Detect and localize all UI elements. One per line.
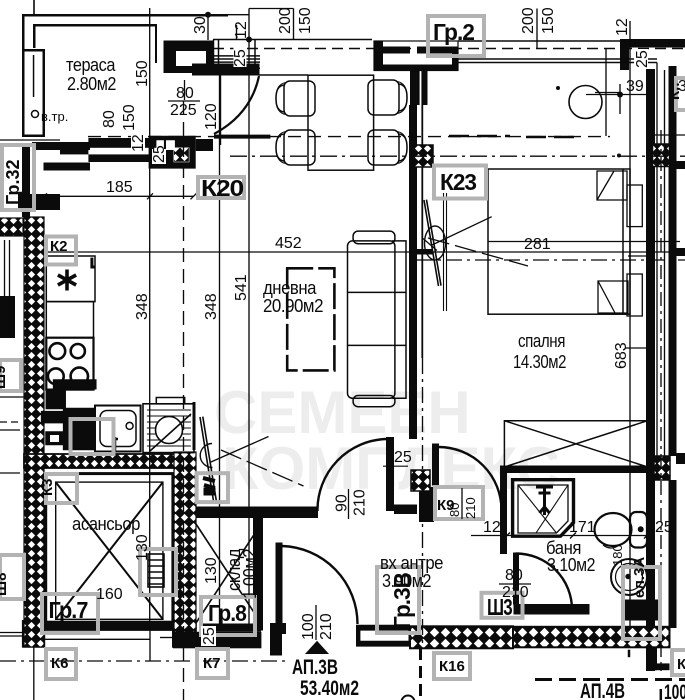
axis: tick under elevator bbox=[160, 637, 175, 639]
wall: right stub 1 bbox=[676, 161, 685, 169]
axis: vertical line x630 bbox=[629, 21, 631, 626]
node: dot right y155 bbox=[617, 154, 621, 158]
wall: pier block with hatch core bbox=[149, 136, 196, 169]
wall: kitchen north band upper bbox=[60, 146, 88, 155]
svg-text:К6: К6 bbox=[51, 655, 69, 672]
furniture: stove burner 2 bbox=[71, 344, 85, 358]
wall: storage right wall bbox=[253, 518, 263, 631]
axis: heavy dashed y679.5 bbox=[535, 678, 685, 681]
svg-text:452: 452 bbox=[275, 235, 302, 252]
door: kitchen unit panel bbox=[200, 417, 216, 501]
hatched wall: bottom band under antre bbox=[410, 626, 513, 648]
svg-text:25: 25 bbox=[151, 145, 168, 163]
furniture: sofa seat lines bbox=[348, 292, 393, 345]
bath: el panel black block bbox=[622, 600, 659, 620]
vtr circle bbox=[32, 111, 39, 118]
door: antre to shtrih leaf bbox=[433, 444, 439, 485]
hatched wall: pier right of bedroom window bbox=[653, 144, 670, 167]
wall: neighbour band left low bbox=[18, 194, 60, 210]
svg-text:14.30м2: 14.30м2 bbox=[513, 352, 566, 372]
elevator: shaft inner bbox=[56, 482, 163, 619]
svg-text:130: 130 bbox=[134, 534, 151, 561]
wall: storage bottom band bbox=[201, 624, 261, 632]
door: entrance leaf bbox=[276, 543, 282, 626]
svg-text:Гр.32: Гр.32 bbox=[3, 159, 23, 205]
wall: wall under antre with opening bbox=[356, 625, 410, 647]
wall: window pier left edge bbox=[374, 41, 383, 71]
svg-text:Ш9: Ш9 bbox=[0, 366, 9, 389]
svg-text:1.00м2: 1.00м2 bbox=[240, 549, 260, 599]
label box К2 bbox=[46, 237, 76, 265]
door: living to antre arc bbox=[317, 439, 386, 511]
wall: left hatch wall bottom cap bbox=[22, 620, 45, 648]
svg-text:348: 348 bbox=[203, 293, 220, 320]
svg-text:К16: К16 bbox=[439, 658, 465, 675]
svg-text:53.40м2: 53.40м2 bbox=[300, 677, 359, 700]
window: dashed axis through windows bbox=[213, 48, 685, 50]
svg-text:К1: К1 bbox=[677, 656, 685, 673]
svg-text:25: 25 bbox=[394, 449, 412, 466]
axis: line y135 right bbox=[652, 134, 685, 136]
wall: bedroom east wall bbox=[646, 69, 655, 671]
svg-text:150: 150 bbox=[134, 60, 151, 87]
svg-text:150: 150 bbox=[121, 104, 138, 131]
wall: bathroom south wall bbox=[514, 604, 590, 615]
furniture: cabinet white inner bbox=[50, 435, 59, 442]
axis: tick x629 bottom bbox=[628, 650, 631, 658]
wall: living-bedroom wall top double bbox=[410, 71, 428, 106]
svg-text:348: 348 bbox=[134, 293, 151, 320]
furniture: sofa armrest bottom bbox=[353, 396, 395, 407]
svg-text:12: 12 bbox=[130, 134, 147, 152]
wall: corridor south wall right stub bbox=[394, 505, 417, 515]
stairs: ladder icon bbox=[148, 554, 164, 587]
svg-text:200: 200 bbox=[520, 7, 537, 34]
axis: vertical line x236.5 top bbox=[236, 25, 238, 40]
svg-text:дневна: дневна bbox=[263, 278, 317, 298]
tick: 185 dim right bbox=[191, 193, 197, 199]
wall: balcony door frame bbox=[164, 41, 214, 74]
furniture: bedroom dresser line bbox=[444, 193, 447, 311]
svg-text:12: 12 bbox=[233, 21, 250, 39]
furniture: sink tap bbox=[112, 437, 118, 451]
axis: line y94.5 through circle bbox=[586, 94, 652, 96]
window: bedroom window lines bbox=[458, 40, 685, 63]
label box door K5 bbox=[197, 473, 228, 502]
door: kitchen unit hardware bbox=[203, 478, 215, 488]
svg-text:171: 171 bbox=[569, 519, 596, 536]
dim 25 rot storage white bbox=[201, 626, 218, 646]
svg-text:Гр.2: Гр.2 bbox=[433, 19, 474, 45]
svg-text:вх антре: вх антре bbox=[380, 553, 443, 573]
label box ел.3А bbox=[623, 567, 660, 639]
axis: vertical line x606 bbox=[605, 49, 607, 137]
label box Гр.8 bbox=[201, 597, 255, 635]
wall: bathroom north wall bbox=[500, 466, 656, 474]
label box К9 bbox=[435, 487, 483, 519]
elevator: shaft outer bbox=[46, 474, 173, 630]
axis: line y256 right stub bbox=[628, 255, 646, 257]
bath: shower outer bbox=[513, 480, 574, 537]
window: balcony window lines bbox=[213, 40, 372, 69]
svg-text:100: 100 bbox=[664, 681, 685, 700]
node: axis dot x249 bbox=[246, 37, 252, 43]
svg-text:39: 39 bbox=[678, 78, 685, 95]
furniture: pillow bottom bbox=[598, 281, 628, 313]
label box К20 bbox=[198, 177, 244, 198]
furniture: stove burner 3 bbox=[48, 368, 64, 384]
label box Гр.2 bbox=[428, 16, 484, 56]
hatched wall: bottom band under bath bbox=[513, 627, 670, 648]
bath: toilet tank dot bbox=[638, 527, 643, 532]
axis: horizontal line y241.5 bed dim bbox=[488, 241, 680, 243]
svg-text:25: 25 bbox=[655, 519, 673, 536]
dash segment left of circle bbox=[449, 135, 510, 138]
door: antre right arc bbox=[439, 447, 502, 510]
furniture: washer right edge bbox=[193, 402, 196, 450]
furniture: sofa backrest bbox=[392, 241, 406, 398]
wall: kitchen north band a bbox=[88, 138, 156, 148]
wall: terrace parapet block bbox=[22, 49, 45, 137]
furniture: sink outer bbox=[95, 406, 141, 452]
label box Ш8 bbox=[0, 555, 24, 599]
door: bedroom unit circle bbox=[425, 226, 446, 260]
dashes right of bed bbox=[526, 136, 581, 139]
axis: dash-dot vertical x422.5 bbox=[422, 358, 424, 648]
tick: 185 dim mid bbox=[147, 193, 153, 199]
node: dot y90 right of circle bbox=[556, 86, 560, 90]
door: kitchen unit vline B bbox=[221, 450, 304, 486]
label box stairs bbox=[140, 549, 176, 595]
furniture: chair top-right bbox=[368, 80, 407, 115]
furniture: nightstand bottom bbox=[627, 274, 642, 316]
wall: left edge neighbour block bbox=[0, 296, 15, 338]
wall: thin line bar to table bbox=[259, 74, 308, 76]
axis: thin vertical x664.5 bbox=[664, 70, 666, 456]
svg-text:12: 12 bbox=[614, 18, 631, 36]
wall: right stub 2 bbox=[676, 248, 685, 256]
axis: line below elevator bbox=[45, 638, 150, 640]
dim 100/210 rot entrance bbox=[300, 605, 335, 640]
axis: horizontal line y140 left bbox=[0, 139, 60, 141]
wall: NE corner vertical bbox=[620, 39, 629, 70]
furniture: sink basin bbox=[100, 411, 136, 447]
wall: entrance door jamb bottom left bbox=[270, 623, 286, 656]
svg-text:в.тр.: в.тр. bbox=[41, 109, 68, 124]
svg-text:К7: К7 bbox=[203, 655, 221, 672]
door: kitchen unit vline A bbox=[210, 437, 269, 463]
axis: vertical line x150 bottom bbox=[149, 625, 151, 661]
svg-text:тераса: тераса bbox=[66, 55, 116, 75]
elevator: X cross bbox=[56, 482, 163, 619]
svg-text:асансьор: асансьор bbox=[72, 514, 140, 534]
furniture: nightstand top bbox=[627, 185, 642, 227]
svg-text:Гр.8: Гр.8 bbox=[208, 600, 247, 626]
svg-text:120: 120 bbox=[203, 103, 220, 130]
door: bedroom unit vline B bbox=[428, 238, 528, 266]
svg-text:К3: К3 bbox=[39, 479, 56, 497]
door: bathroom leaf bbox=[514, 553, 519, 604]
axis: line y348 right stub bbox=[625, 347, 646, 349]
wall: window pier right edge bbox=[452, 47, 458, 72]
door: living to antre leaf bbox=[387, 438, 394, 511]
axis: short dash y422 left bbox=[0, 421, 20, 423]
svg-text:210: 210 bbox=[352, 489, 369, 516]
wall: terrace south lower bar bbox=[44, 163, 91, 171]
furniture: sofa body bbox=[348, 241, 395, 398]
furniture: washer tray bbox=[156, 398, 184, 404]
svg-text:К23: К23 bbox=[440, 169, 476, 195]
furniture: bed head line bbox=[622, 169, 624, 314]
column circle bedroom bbox=[569, 86, 602, 119]
furniture: chair bottom-left bbox=[276, 130, 315, 165]
hatched wall: pier near wardrobe right bbox=[654, 456, 670, 480]
wall: bar under balcony window bbox=[192, 64, 260, 76]
furniture: sink faucet dot bbox=[126, 422, 133, 429]
door: kitchen unit hardware 2 bbox=[204, 488, 215, 495]
node: axis dot x620 y94.5 bbox=[617, 92, 623, 98]
furniture: washer slash bbox=[150, 414, 191, 451]
wall: bathroom west wall bbox=[500, 467, 507, 554]
hatched wall: pier core in north wall bbox=[174, 148, 189, 162]
furniture: washer box bbox=[143, 404, 194, 453]
wall: far right wall lower bbox=[669, 480, 677, 628]
furniture: chair top-left bbox=[276, 81, 315, 116]
furniture: kitchen counter corner tick bbox=[92, 258, 95, 267]
furniture: hob star symbol bbox=[58, 270, 76, 291]
axis: vertical dashed line x183.5 bbox=[183, 101, 185, 700]
wall: right stub 3 bbox=[676, 453, 685, 464]
dim 80/210 rot K9 bbox=[447, 488, 478, 519]
svg-text:541: 541 bbox=[233, 274, 250, 301]
svg-text:683: 683 bbox=[613, 342, 630, 369]
tick under 25 antre bbox=[383, 465, 408, 467]
wall: axis line top left bbox=[33, 0, 35, 15]
hatched wall: horizontal band above elevator bbox=[24, 454, 175, 468]
svg-text:160: 160 bbox=[96, 586, 123, 603]
wall: NE corner horizontal bbox=[629, 40, 685, 48]
axis: vertical line x293.5 top bbox=[293, 9, 295, 40]
svg-text:80: 80 bbox=[447, 503, 462, 517]
hatched wall: left neighbour stub bbox=[0, 218, 23, 236]
axis: dash-dot vertical x661 bbox=[660, 130, 662, 671]
wall: window pier top chord right bbox=[417, 47, 458, 54]
axis: horizontal line y252 bbox=[30, 251, 684, 253]
dim 25 rot right bbox=[634, 49, 651, 69]
axis: heavy dashed vertical x420.5 bottom bbox=[419, 648, 422, 700]
axis: dash-dot horizontal y661 bbox=[0, 660, 287, 662]
hatched wall: storage west wall bbox=[174, 452, 196, 632]
furniture: stove outline bbox=[46, 338, 93, 390]
bath: toilet tank bbox=[630, 512, 647, 548]
bath: sink dot bbox=[626, 574, 630, 578]
axis: top dim chain line bbox=[228, 9, 294, 15]
svg-text:130: 130 bbox=[203, 557, 220, 584]
axis: short line y473 left bbox=[0, 472, 20, 474]
svg-text:150: 150 bbox=[540, 7, 557, 34]
window: balcony window jambs bbox=[214, 40, 256, 69]
furniture: stove burner 4 bbox=[71, 368, 88, 385]
bath: toilet bowl bbox=[595, 513, 632, 546]
axis: dashed horizontal y136.6 bbox=[88, 136, 610, 138]
wall: bathroom east wall low bbox=[650, 627, 657, 670]
svg-text:80: 80 bbox=[505, 567, 523, 584]
wall: storage hatch wall bottom cap bbox=[172, 620, 197, 648]
svg-text:К2: К2 bbox=[50, 238, 68, 255]
furniture: dining table bbox=[308, 75, 374, 170]
wall: left edge neighbour lines bbox=[5, 240, 10, 296]
label box К6 bbox=[46, 649, 76, 679]
dim 80/210 sh3 bbox=[499, 567, 531, 601]
axis: line y92.5 right bbox=[595, 92, 620, 94]
label box Гр.32 bbox=[2, 145, 34, 210]
svg-text:3.90м2: 3.90м2 bbox=[382, 571, 431, 591]
axis: vertical line x34 bottom bbox=[33, 647, 35, 700]
svg-text:200: 200 bbox=[277, 7, 294, 34]
wall: bathroom SE corner cap bbox=[650, 663, 670, 670]
svg-text:30: 30 bbox=[192, 16, 209, 34]
axis: thin vertical x657 bbox=[656, 63, 658, 461]
axis: short line y397 left bbox=[0, 396, 24, 398]
door: bedroom unit panel bbox=[424, 200, 441, 286]
svg-text:3.10м2: 3.10м2 bbox=[547, 555, 595, 575]
wall: terrace outer top line bbox=[22, 14, 228, 137]
tick: 185 dim left bbox=[41, 193, 47, 199]
label box kitchen K4 bbox=[71, 419, 114, 454]
svg-text:225: 225 bbox=[170, 102, 197, 119]
door: kitchen unit arc bbox=[200, 444, 212, 468]
label box Гр.7 bbox=[42, 594, 98, 633]
svg-text:210: 210 bbox=[463, 497, 478, 519]
svg-text:80: 80 bbox=[176, 85, 194, 102]
label box К3 bbox=[46, 474, 77, 503]
label box К23 bbox=[434, 166, 486, 199]
bath: shower mixer symbol bbox=[536, 487, 553, 515]
wall: far right wall upper bbox=[669, 66, 677, 166]
svg-text:185: 185 bbox=[106, 179, 133, 196]
svg-text:210: 210 bbox=[502, 584, 529, 601]
label box К17 partial bbox=[672, 650, 685, 675]
furniture: sofa armrest top bbox=[353, 231, 395, 244]
wall: antre west black piece bbox=[419, 487, 434, 522]
bath: sink inner bbox=[616, 564, 643, 591]
furniture: pillow top bbox=[597, 171, 627, 200]
dim 80/225 line bbox=[168, 100, 200, 102]
furniture: bed outline bbox=[488, 169, 630, 314]
bath: sink bowl bbox=[611, 559, 647, 595]
bath: shower inner bbox=[518, 485, 568, 533]
door: balcony door arc bbox=[214, 76, 259, 134]
furniture: oven black box bbox=[46, 390, 65, 409]
wall: elevator bottom wall bbox=[46, 621, 173, 631]
axis: short line y430 left bbox=[0, 429, 20, 431]
hatched wall: pier at living NE bbox=[414, 145, 434, 167]
svg-text:АП.4В: АП.4В bbox=[580, 680, 625, 700]
svg-text:210: 210 bbox=[318, 613, 335, 640]
wall: kitchen north band b bbox=[88, 154, 156, 162]
wall: left neighbour vertical bar bbox=[22, 146, 30, 217]
svg-text:К20: К20 bbox=[201, 175, 243, 201]
wall: window pier top chord left bbox=[375, 47, 410, 54]
entrance triangle bbox=[305, 641, 329, 654]
axis: vertical line x537 top bbox=[536, 9, 538, 49]
label box Гр.3В bbox=[377, 567, 419, 633]
svg-text:281: 281 bbox=[524, 236, 551, 253]
label box К16 bbox=[434, 653, 470, 679]
wall: living-bedroom wall bbox=[409, 105, 417, 439]
wall: junction tick on bedroom wall bbox=[415, 249, 433, 255]
hatched wall: west wall bbox=[24, 217, 44, 647]
svg-text:80: 80 bbox=[101, 110, 118, 128]
door: balcony door leaf bbox=[220, 76, 222, 146]
node: axis dot x208 bbox=[205, 12, 211, 18]
axis: vertical line x208 top bbox=[207, 15, 209, 40]
label box Ш3 bbox=[482, 593, 523, 618]
wall: terrace inner top line bbox=[33, 24, 157, 63]
door: bedroom unit tick bbox=[423, 239, 437, 251]
bath: shower diagonals bbox=[518, 485, 568, 533]
door: bedroom unit vline A bbox=[432, 217, 492, 245]
axis: dash-dot horizontal y156.2 bbox=[230, 155, 685, 157]
label box Ш9 bbox=[0, 360, 21, 391]
furniture: stove bottom black bar bbox=[54, 380, 96, 389]
door: entrance arc bbox=[282, 546, 358, 624]
wall: thin line right of wall bbox=[421, 105, 423, 358]
wall: terrace parapet inner line bbox=[33, 55, 35, 97]
door: bathroom arc bbox=[516, 554, 572, 610]
wall: window pier bottom chord bbox=[374, 65, 458, 72]
furniture: washer circle bbox=[156, 417, 183, 444]
axis: horizontal dim line y535.5 bath bbox=[471, 535, 647, 537]
wall: terrace south upper bar bbox=[32, 142, 90, 150]
axis: horizontal dim line y196.3 bbox=[30, 195, 194, 197]
wall: thick segment on y136.6 bbox=[214, 135, 270, 139]
svg-text:39: 39 bbox=[626, 78, 644, 95]
svg-text:12: 12 bbox=[483, 519, 501, 536]
tick: bath dim 1 bbox=[504, 533, 650, 539]
axis: vertical dim line x150 bbox=[149, 8, 151, 625]
dim 90/210 rot bbox=[334, 489, 369, 519]
window: pier inner outline bbox=[374, 41, 458, 71]
node: diamond at elevator corner bbox=[145, 620, 155, 630]
dim 12 rot pier white bbox=[130, 133, 147, 153]
bath: toilet small detail bbox=[603, 545, 619, 548]
label box right edge partial bbox=[676, 78, 685, 110]
dim 25 rot window bbox=[232, 47, 249, 67]
furniture: chair bottom-right bbox=[368, 130, 407, 165]
furniture: kitchen fridge section bbox=[46, 302, 93, 338]
axis: dash-dot horizontal y260 bedroom bbox=[417, 259, 685, 261]
svg-text:180: 180 bbox=[610, 544, 625, 566]
svg-text:25: 25 bbox=[201, 627, 218, 645]
door: handle circle bottom edge bbox=[402, 696, 415, 700]
axis: vertical line x219.5 bbox=[219, 76, 221, 626]
wall: white gap in double wall bbox=[420, 71, 422, 106]
axis: cross tick at x620 bbox=[619, 84, 621, 114]
svg-text:АП.3В: АП.3В bbox=[292, 656, 338, 679]
furniture: coffee table bbox=[287, 268, 334, 370]
wall: pier to window jamb bbox=[196, 139, 213, 151]
wall: far right wall mid bbox=[669, 166, 677, 456]
storage: X cross bbox=[196, 524, 261, 623]
axis: vertical line x249 bbox=[248, 9, 250, 626]
hatched wall: pier at antre bbox=[411, 470, 430, 491]
axis: elevator bottom line y625 bbox=[45, 624, 173, 626]
axis: vertical line x660.8 bottom bbox=[660, 689, 663, 700]
svg-text:150: 150 bbox=[297, 7, 314, 34]
wall: storage bottom thick band bbox=[173, 632, 261, 649]
svg-text:25: 25 bbox=[232, 49, 249, 67]
